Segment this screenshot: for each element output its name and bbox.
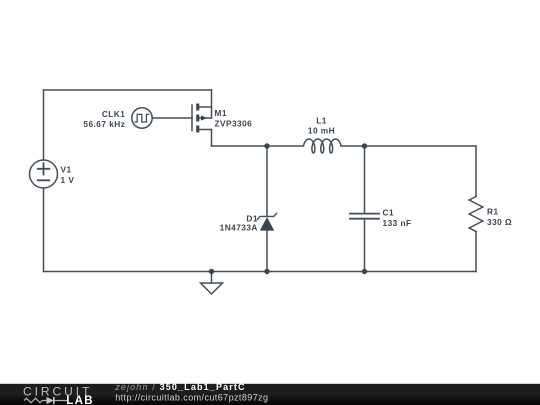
svg-text:1 V: 1 V — [61, 175, 75, 185]
svg-text:http://circuitlab.com/cut67pzt: http://circuitlab.com/cut67pzt897zg — [115, 392, 268, 402]
svg-text:M1: M1 — [215, 108, 227, 118]
svg-text:L1: L1 — [316, 115, 327, 125]
svg-text:56.67 kHz: 56.67 kHz — [83, 119, 125, 129]
svg-text:ZVP3306: ZVP3306 — [215, 119, 253, 129]
svg-text:1N4733A: 1N4733A — [220, 223, 258, 233]
svg-text:133 nF: 133 nF — [383, 218, 412, 228]
svg-text:10 mH: 10 mH — [308, 126, 335, 136]
svg-text:R1: R1 — [487, 207, 499, 217]
svg-text:CLK1: CLK1 — [102, 109, 125, 119]
svg-text:C1: C1 — [383, 207, 395, 217]
svg-text:330 Ω: 330 Ω — [487, 217, 512, 227]
svg-text:zejohn / 350_Lab1_PartC: zejohn / 350_Lab1_PartC — [114, 382, 246, 392]
svg-text:V1: V1 — [61, 164, 72, 174]
svg-text:LAB: LAB — [66, 395, 94, 405]
